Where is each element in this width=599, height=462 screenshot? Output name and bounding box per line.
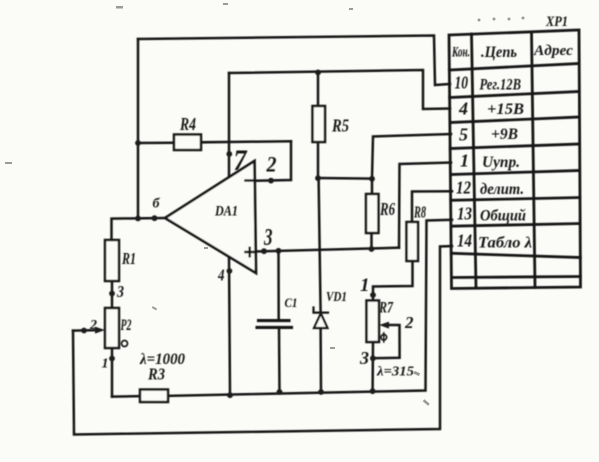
svg-text:13: 13 — [457, 204, 472, 224]
svg-text:R1: R1 — [121, 249, 136, 268]
svg-text:1: 1 — [360, 275, 370, 296]
svg-text:1: 1 — [102, 357, 109, 372]
svg-text:3: 3 — [263, 225, 272, 251]
svg-text:4: 4 — [458, 99, 468, 119]
svg-text:R7: R7 — [378, 300, 393, 317]
svg-text:Кон.: Кон. — [451, 45, 470, 61]
svg-text:2: 2 — [89, 318, 97, 333]
svg-text:Рег.12В: Рег.12В — [479, 77, 522, 94]
svg-text:DA1: DA1 — [214, 204, 238, 220]
svg-text:VD1: VD1 — [326, 289, 347, 304]
svg-text:Uупр.: Uупр. — [482, 154, 520, 171]
svg-text:R4: R4 — [179, 114, 196, 134]
svg-text:7: 7 — [234, 144, 248, 177]
svg-text:R6: R6 — [379, 199, 395, 219]
svg-text:Р2: Р2 — [120, 317, 132, 334]
svg-text:+9В: +9В — [491, 126, 518, 143]
svg-text:1: 1 — [460, 151, 469, 171]
svg-text:2: 2 — [404, 313, 414, 332]
svg-text:5: 5 — [459, 125, 468, 145]
svg-text:+15В: +15В — [487, 101, 524, 118]
svg-text:Адрес: Адрес — [533, 43, 573, 59]
svg-text:2: 2 — [266, 152, 277, 177]
svg-text:R8: R8 — [413, 203, 426, 222]
svg-text:3: 3 — [359, 348, 369, 368]
svg-text:λ=315: λ=315 — [376, 364, 414, 379]
svg-text:12: 12 — [456, 178, 471, 198]
svg-text:14: 14 — [457, 231, 472, 251]
svg-text:.Цепь: .Цепь — [481, 44, 517, 61]
svg-text:4: 4 — [217, 266, 224, 285]
svg-text:10: 10 — [455, 73, 469, 93]
svg-text:λ=1000: λ=1000 — [139, 351, 185, 368]
svg-text:Общий: Общий — [480, 208, 526, 225]
svg-text:Табло λ: Табло λ — [478, 235, 532, 252]
svg-text:C1: C1 — [285, 295, 298, 310]
svg-text:б: б — [153, 197, 161, 212]
svg-text:R5: R5 — [331, 116, 349, 136]
svg-text:ХР1: ХР1 — [545, 14, 568, 30]
svg-text:3: 3 — [116, 282, 124, 301]
svg-text:делит.: делит. — [480, 181, 524, 198]
